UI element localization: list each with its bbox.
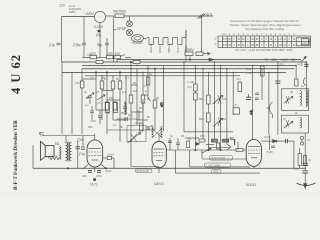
svg-text:(7): (7)	[234, 103, 237, 107]
svg-text:220: 220	[115, 52, 121, 56]
svg-text:1M: 1M	[222, 117, 227, 121]
svg-text:25k: 25k	[88, 125, 93, 129]
svg-text:50: 50	[133, 81, 137, 85]
svg-text:UL71: UL71	[90, 183, 98, 187]
svg-text:470: 470	[214, 170, 219, 174]
svg-text:WD750Ω: WD750Ω	[113, 10, 127, 14]
svg-text:1n: 1n	[149, 72, 153, 76]
svg-text:B≈473 kHz: B≈473 kHz	[212, 156, 226, 160]
svg-text:400: 400	[82, 174, 87, 178]
svg-text:10k: 10k	[101, 76, 106, 80]
svg-text:(7): (7)	[143, 84, 146, 88]
svg-text:L≈2C 1000: L≈2C 1000	[207, 164, 221, 168]
svg-text:(7n): (7n)	[97, 101, 102, 105]
svg-text:(7): (7)	[270, 150, 273, 154]
svg-text:25k: 25k	[109, 96, 114, 100]
svg-text:4n: 4n	[308, 158, 312, 162]
svg-text:30k: 30k	[199, 97, 204, 101]
svg-text:(7w): (7w)	[246, 71, 252, 75]
svg-text:4n: 4n	[229, 136, 233, 140]
svg-text:50: 50	[121, 111, 125, 115]
svg-text:a(7)µF: a(7)µF	[117, 27, 127, 31]
svg-text:1n: 1n	[170, 134, 174, 138]
svg-text:0,5: 0,5	[90, 76, 94, 80]
svg-text:(7): (7)	[113, 123, 116, 127]
svg-text:UCH42: UCH42	[149, 43, 153, 53]
svg-text:a(7): a(7)	[160, 102, 164, 107]
svg-text:(7k): (7k)	[75, 81, 80, 85]
svg-text:240: 240	[107, 52, 113, 56]
svg-text:(7)W: (7)W	[77, 138, 84, 142]
svg-text:(7)0µ: (7)0µ	[73, 43, 81, 47]
svg-text:25: 25	[211, 139, 215, 143]
svg-text:(7µ): (7µ)	[79, 152, 85, 156]
svg-text:UBC41: UBC41	[167, 43, 171, 53]
svg-text:UCH21: UCH21	[246, 183, 257, 187]
svg-text:a(7): a(7)	[128, 113, 133, 117]
svg-text:a-c: a-c	[85, 103, 89, 107]
svg-text:40: 40	[156, 96, 160, 100]
svg-text:220V: 220V	[75, 7, 81, 11]
svg-text:220: 220	[59, 4, 65, 8]
svg-text:7V~ 65V~ +1,2V +UB: 7V~ 65V~ +1,2V +UB	[265, 58, 296, 62]
svg-text:2M: 2M	[135, 121, 140, 125]
svg-text:0,1A tr: 0,1A tr	[94, 25, 104, 29]
svg-text:30: 30	[86, 96, 90, 100]
svg-text:(7µ): (7µ)	[236, 77, 241, 81]
svg-text:(2x): (2x)	[96, 33, 102, 37]
svg-text:60: 60	[139, 106, 143, 110]
svg-text:St: St	[307, 138, 310, 142]
svg-text:25: 25	[96, 90, 100, 94]
svg-text:1M: 1M	[133, 89, 138, 93]
svg-text:2V~ 6,3V~ +1,2V 12V 30V 8: 2V~ 6,3V~ +1,2V 12V 30V 85V 170V 200V ~2…	[235, 48, 293, 52]
svg-text:+250V: +250V	[184, 48, 194, 52]
svg-text:(7n): (7n)	[294, 167, 299, 171]
svg-text:1M: 1M	[222, 97, 227, 101]
svg-text:B≈473 kHz: B≈473 kHz	[137, 170, 150, 173]
svg-text:(7)µ: (7)µ	[49, 43, 55, 47]
svg-text:0,1: 0,1	[122, 90, 126, 94]
svg-text:4/50: 4/50	[96, 174, 102, 178]
svg-text:50µ: 50µ	[97, 43, 103, 47]
svg-text:46: 46	[290, 90, 294, 94]
svg-text:220: 220	[91, 52, 97, 56]
svg-text:0,1: 0,1	[145, 89, 149, 93]
svg-text:(7)µF: (7)µF	[105, 169, 112, 173]
svg-text:(7k)Ω: (7k)Ω	[107, 153, 114, 157]
svg-text:25: 25	[181, 134, 185, 138]
svg-text:4x(7): 4x(7)	[264, 135, 270, 139]
svg-text:5Ω: 5Ω	[55, 142, 60, 146]
svg-text:4n: 4n	[107, 111, 111, 115]
svg-text:a(7): a(7)	[207, 13, 213, 17]
svg-text:bei Stellung 152 (Tol. ±10%): bei Stellung 152 (Tol. ±10%)	[246, 27, 285, 31]
svg-text:UAF21: UAF21	[154, 182, 164, 186]
svg-text:UL41: UL41	[176, 46, 180, 53]
svg-text:2µ: 2µ	[84, 90, 88, 94]
svg-text:~220V: ~220V	[84, 12, 94, 16]
svg-text:50k: 50k	[199, 117, 204, 121]
svg-text:(7n): (7n)	[279, 62, 284, 66]
svg-text:1M: 1M	[221, 138, 226, 142]
svg-text:0,1µF: 0,1µF	[187, 80, 194, 84]
svg-text:+UL: +UL	[298, 63, 304, 67]
svg-text:+UL: +UL	[249, 109, 253, 115]
svg-text:1n: 1n	[124, 101, 128, 105]
svg-text:4 U 62: 4 U 62	[9, 54, 23, 94]
svg-text:0,1: 0,1	[125, 76, 129, 80]
svg-text:100: 100	[200, 134, 205, 138]
svg-text:R·F·T Funkwerk Dresden VEB: R·F·T Funkwerk Dresden VEB	[13, 120, 19, 190]
svg-text:152: 152	[302, 41, 307, 45]
svg-text:(7n): (7n)	[187, 85, 192, 89]
svg-text:7µ: 7µ	[283, 117, 287, 121]
svg-text:UF41: UF41	[158, 46, 162, 53]
svg-text:W30AF: W30AF	[132, 41, 143, 45]
